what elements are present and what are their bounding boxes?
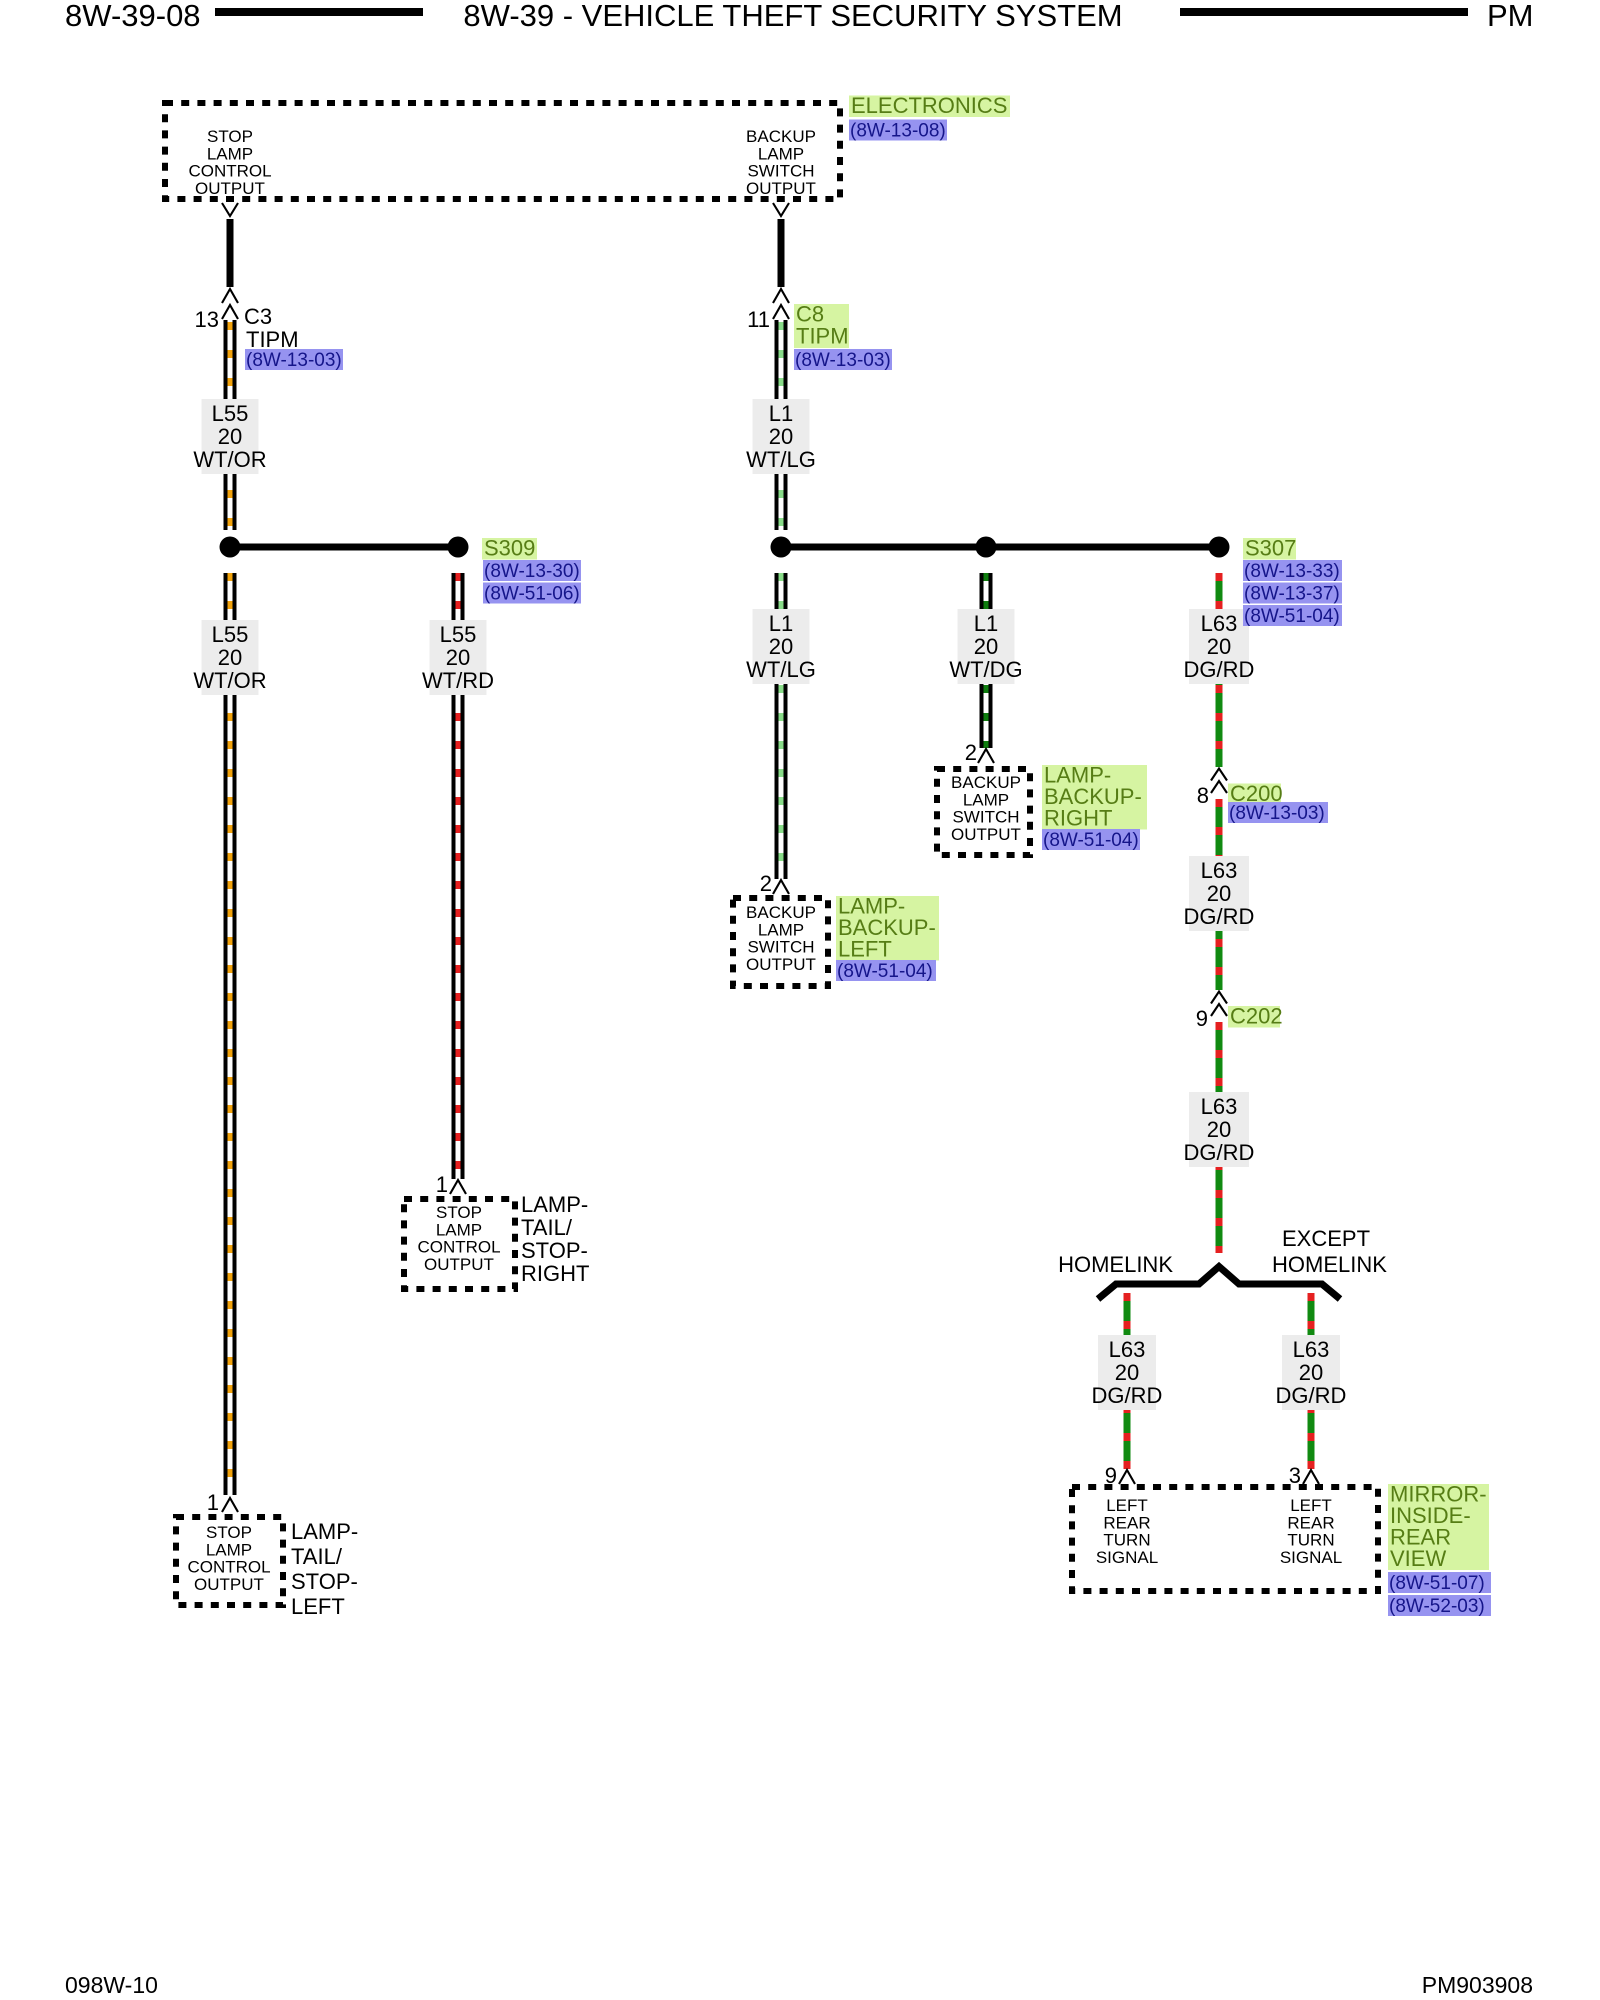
connector C202 pin 9: [1211, 992, 1227, 1004]
label L55 20 WT/RD: [422, 620, 494, 695]
label L63 20 DG/RD: [1184, 856, 1255, 931]
label L63 20 DG/RD: [1184, 609, 1255, 684]
svg-text:OUTPUT: OUTPUT: [746, 955, 816, 974]
svg-text:L63: L63: [1293, 1337, 1330, 1362]
wire L63 DG/RD seg3: [1216, 1022, 1223, 1253]
svg-text:STOP: STOP: [206, 1523, 252, 1542]
TIPM electronics module box: [165, 103, 840, 199]
svg-text:EXCEPT: EXCEPT: [1282, 1226, 1370, 1251]
svg-text:20: 20: [974, 634, 998, 659]
svg-text:(8W-13-37): (8W-13-37): [1244, 583, 1340, 604]
svg-text:REAR: REAR: [1287, 1513, 1334, 1532]
svg-text:STOP-: STOP-: [291, 1569, 358, 1594]
svg-text:L63: L63: [1201, 858, 1238, 883]
svg-text:OUTPUT: OUTPUT: [424, 1255, 494, 1274]
component LAMP-TAIL/STOP-LEFT box: [176, 1517, 283, 1605]
connector C8 pin 11: [773, 289, 789, 303]
svg-text:L63: L63: [1201, 1094, 1238, 1119]
svg-text:LAMP: LAMP: [206, 1540, 252, 1559]
svg-text:8W-39 - VEHICLE THEFT SECURITY: 8W-39 - VEHICLE THEFT SECURITY SYSTEM: [463, 0, 1122, 33]
svg-text:WT/DG: WT/DG: [949, 657, 1022, 682]
svg-text:S309: S309: [484, 536, 535, 561]
svg-text:PM: PM: [1487, 0, 1534, 33]
svg-text:OUTPUT: OUTPUT: [746, 179, 816, 198]
svg-text:(8W-13-03): (8W-13-03): [1229, 803, 1325, 824]
connector C200 pin 8: [1211, 769, 1227, 781]
wire stop lamp control output stem: [227, 219, 234, 287]
svg-text:WT/OR: WT/OR: [193, 447, 266, 472]
svg-text:TAIL/: TAIL/: [291, 1544, 343, 1569]
svg-text:WT/LG: WT/LG: [746, 657, 816, 682]
svg-text:STOP-: STOP-: [521, 1238, 588, 1263]
svg-text:20: 20: [218, 424, 242, 449]
wire L55 WT/OR upper: [224, 320, 237, 530]
svg-text:SWITCH: SWITCH: [747, 162, 814, 181]
connector C3 pin 13: [222, 289, 238, 303]
svg-text:HOMELINK: HOMELINK: [1058, 1252, 1173, 1277]
wire split brace homelink / except homelink: [1098, 1267, 1340, 1300]
svg-text:(8W-51-04): (8W-51-04): [837, 961, 933, 982]
svg-text:DG/RD: DG/RD: [1184, 657, 1255, 682]
svg-text:L63: L63: [1109, 1337, 1146, 1362]
label L63 20 DG/RD: [1092, 1335, 1163, 1410]
svg-text:13: 13: [195, 307, 219, 332]
svg-text:LAMP: LAMP: [207, 144, 253, 163]
svg-text:RIGHT: RIGHT: [521, 1261, 589, 1286]
label L55 20 WT/OR: [193, 620, 266, 695]
label L63 20 DG/RD: [1184, 1092, 1255, 1167]
svg-text:20: 20: [769, 424, 793, 449]
wire L55 WT/OR lower: [224, 573, 237, 1495]
svg-text:STOP: STOP: [436, 1203, 482, 1222]
label L55 20 WT/OR: [193, 399, 266, 474]
svg-text:CONTROL: CONTROL: [188, 162, 271, 181]
node ELECTRONICS label: [849, 93, 1010, 118]
component LAMP-BACKUP-LEFT box: [733, 898, 828, 986]
wire L63 DG/RD homelink branch: [1124, 1293, 1131, 1469]
svg-text:WT/RD: WT/RD: [422, 668, 494, 693]
svg-text:TAIL/: TAIL/: [521, 1215, 573, 1240]
svg-text:20: 20: [446, 645, 470, 670]
svg-text:PM903908: PM903908: [1422, 1972, 1533, 1998]
svg-text:2: 2: [965, 740, 977, 765]
svg-text:(8W-13-03): (8W-13-03): [246, 350, 342, 371]
svg-text:REAR: REAR: [1103, 1513, 1150, 1532]
svg-text:HOMELINK: HOMELINK: [1272, 1252, 1387, 1277]
svg-text:DG/RD: DG/RD: [1184, 1140, 1255, 1165]
pin 1 into lamp-tail-stop-left: [222, 1498, 238, 1512]
svg-text:CONTROL: CONTROL: [187, 1558, 270, 1577]
svg-text:L55: L55: [212, 401, 249, 426]
wire L1 WT/DG run: [980, 573, 993, 748]
component LAMP-BACKUP-RIGHT box: [937, 769, 1030, 855]
svg-text:DG/RD: DG/RD: [1184, 904, 1255, 929]
svg-text:098W-10: 098W-10: [65, 1972, 158, 1998]
svg-text:TURN: TURN: [1103, 1531, 1150, 1550]
svg-text:L63: L63: [1201, 611, 1238, 636]
svg-text:20: 20: [1207, 1117, 1231, 1142]
svg-text:20: 20: [1207, 634, 1231, 659]
svg-text:LEFT: LEFT: [291, 1594, 345, 1619]
pin out backup lamp switch output: [773, 203, 789, 216]
svg-text:L55: L55: [440, 622, 477, 647]
svg-text:LAMP-: LAMP-: [291, 1519, 358, 1544]
svg-text:L1: L1: [769, 611, 793, 636]
svg-text:SWITCH: SWITCH: [952, 808, 1019, 827]
splice S307: [771, 537, 1230, 558]
svg-text:VIEW: VIEW: [1390, 1546, 1446, 1571]
label L1 20 WT/LG: [746, 399, 816, 474]
svg-text:TIPM: TIPM: [246, 327, 299, 352]
svg-text:(8W-52-03): (8W-52-03): [1389, 1596, 1485, 1617]
wire L63 DG/RD except-homelink branch: [1308, 1293, 1315, 1469]
svg-text:DG/RD: DG/RD: [1092, 1383, 1163, 1408]
svg-text:STOP: STOP: [207, 127, 253, 146]
svg-text:LAMP: LAMP: [963, 790, 1009, 809]
svg-text:(8W-51-04): (8W-51-04): [1043, 830, 1139, 851]
svg-text:L1: L1: [974, 611, 998, 636]
svg-text:(8W-13-30): (8W-13-30): [484, 561, 580, 582]
wire backup lamp switch output stem: [778, 219, 785, 287]
label L1 20 WT/DG: [949, 609, 1022, 684]
svg-text:(8W-51-06): (8W-51-06): [484, 583, 580, 604]
svg-text:TIPM: TIPM: [796, 324, 849, 349]
svg-text:LEFT: LEFT: [838, 937, 892, 962]
svg-text:WT/LG: WT/LG: [746, 447, 816, 472]
svg-text:LAMP: LAMP: [758, 144, 804, 163]
svg-text:C3: C3: [244, 304, 272, 329]
svg-text:C202: C202: [1230, 1004, 1283, 1029]
svg-text:8: 8: [1197, 783, 1209, 808]
svg-text:LAMP-: LAMP-: [521, 1192, 588, 1217]
svg-text:SIGNAL: SIGNAL: [1280, 1548, 1342, 1567]
svg-text:1: 1: [207, 1490, 219, 1515]
svg-text:WT/OR: WT/OR: [193, 668, 266, 693]
svg-text:L55: L55: [212, 622, 249, 647]
svg-text:(8W-51-04): (8W-51-04): [1244, 606, 1340, 627]
svg-text:LEFT: LEFT: [1106, 1496, 1148, 1515]
svg-text:BACKUP: BACKUP: [951, 773, 1021, 792]
svg-text:LAMP: LAMP: [436, 1220, 482, 1239]
wire L55 WT/RD run: [452, 573, 465, 1179]
wire L1 WT/LG lower: [775, 573, 788, 879]
svg-text:DG/RD: DG/RD: [1276, 1383, 1347, 1408]
svg-text:LEFT: LEFT: [1290, 1496, 1332, 1515]
svg-text:SWITCH: SWITCH: [747, 938, 814, 957]
svg-text:20: 20: [1115, 1360, 1139, 1385]
svg-text:OUTPUT: OUTPUT: [194, 1575, 264, 1594]
svg-text:9: 9: [1196, 1006, 1208, 1031]
component LAMP-TAIL/STOP-RIGHT box: [404, 1199, 515, 1289]
node LAMP-BACKUP-RIGHT label: [1042, 763, 1147, 831]
svg-text:BACKUP: BACKUP: [746, 903, 816, 922]
svg-text:(8W-13-08): (8W-13-08): [850, 120, 946, 141]
node MIRROR-INSIDE-REAR VIEW label: [1388, 1482, 1489, 1572]
svg-text:(8W-13-03): (8W-13-03): [795, 350, 891, 371]
svg-text:SIGNAL: SIGNAL: [1096, 1548, 1158, 1567]
wire L63 DG/RD seg1: [1216, 573, 1223, 767]
svg-text:(8W-13-33): (8W-13-33): [1244, 561, 1340, 582]
svg-text:L1: L1: [769, 401, 793, 426]
svg-text:S307: S307: [1245, 536, 1296, 561]
svg-text:ELECTRONICS: ELECTRONICS: [851, 93, 1007, 118]
pin out stop lamp control output: [222, 203, 238, 216]
wire L63 DG/RD seg2: [1216, 799, 1223, 990]
component MIRROR-INSIDE-REAR-VIEW box: [1072, 1487, 1378, 1591]
node LAMP-BACKUP-LEFT label: [836, 894, 939, 962]
svg-text:BACKUP: BACKUP: [746, 127, 816, 146]
label L1 20 WT/LG: [746, 609, 816, 684]
pin 2 into lamp-backup-right: [978, 749, 994, 763]
svg-text:20: 20: [1207, 881, 1231, 906]
svg-text:OUTPUT: OUTPUT: [195, 179, 265, 198]
splice S309: [220, 537, 469, 558]
svg-text:RIGHT: RIGHT: [1044, 806, 1112, 831]
svg-text:20: 20: [769, 634, 793, 659]
node S307 label: [1243, 536, 1296, 561]
wire L1 WT/LG upper: [775, 320, 788, 530]
pin 3 into mirror: [1303, 1470, 1319, 1484]
svg-text:CONTROL: CONTROL: [417, 1238, 500, 1257]
svg-text:(8W-51-07): (8W-51-07): [1389, 1573, 1485, 1594]
label L63 20 DG/RD: [1276, 1335, 1347, 1410]
pin 2 into lamp-backup-left: [773, 880, 789, 894]
pin 1 into lamp-tail-stop-right: [450, 1180, 466, 1194]
svg-text:OUTPUT: OUTPUT: [951, 825, 1021, 844]
svg-text:1: 1: [436, 1172, 448, 1197]
svg-text:8W-39-08: 8W-39-08: [65, 0, 201, 33]
node S307 references: [1243, 560, 1342, 582]
svg-text:TURN: TURN: [1287, 1531, 1334, 1550]
svg-text:2: 2: [760, 871, 772, 896]
pin 9 into mirror: [1119, 1470, 1135, 1484]
svg-text:20: 20: [1299, 1360, 1323, 1385]
svg-text:20: 20: [218, 645, 242, 670]
node S309 label: [482, 536, 537, 561]
svg-text:11: 11: [747, 307, 770, 332]
svg-text:LAMP: LAMP: [758, 920, 804, 939]
